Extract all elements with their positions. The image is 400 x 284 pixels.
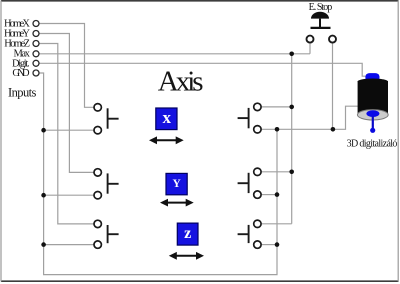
svg-text:x: x <box>163 108 172 127</box>
svg-text:Inputs: Inputs <box>8 86 37 100</box>
svg-text:z: z <box>184 225 191 242</box>
svg-text:3D digitalizáló: 3D digitalizáló <box>347 139 398 150</box>
svg-text:Y: Y <box>172 178 181 190</box>
svg-text:Axis: Axis <box>158 66 204 98</box>
svg-text:GND: GND <box>12 68 30 79</box>
svg-text:E. Stop: E. Stop <box>309 2 333 13</box>
